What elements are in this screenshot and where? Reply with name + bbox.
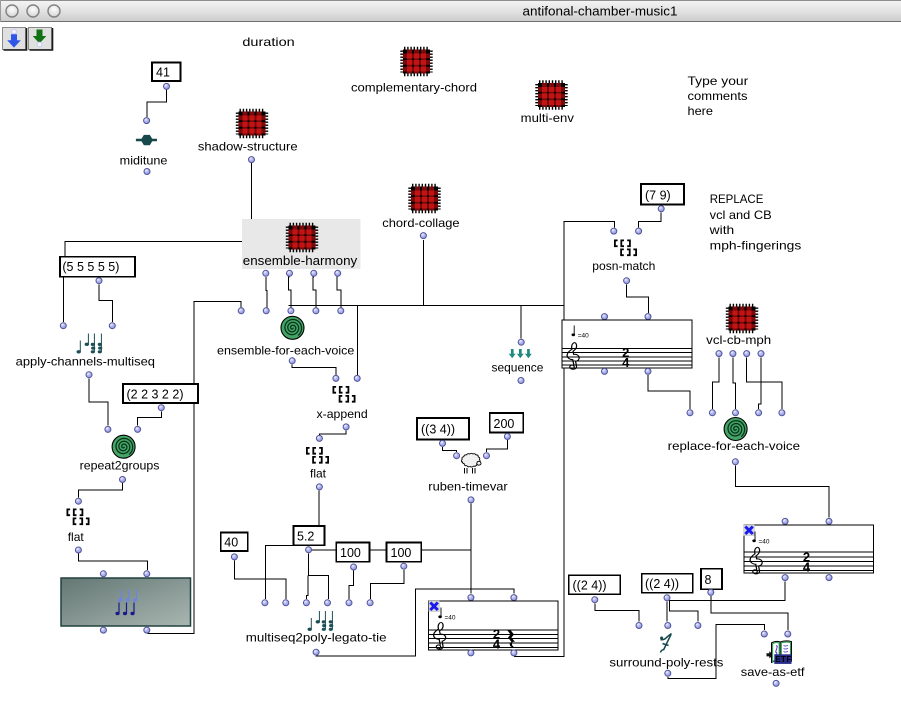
staff box 2 (replace score)	[744, 518, 874, 580]
wire 40 to multiseq2poly in2	[234, 561, 285, 600]
number box 40	[221, 533, 248, 560]
svg-text:mph-fingerings: mph-fingerings	[710, 238, 802, 252]
svg-text:duration: duration	[242, 35, 294, 49]
svg-text:((2 4)): ((2 4))	[573, 579, 607, 593]
module posn-match	[592, 228, 655, 284]
svg-text:(2 2 3 2 2): (2 2 3 2 2)	[127, 388, 184, 402]
wire vcl out3 to rfev in5	[747, 357, 782, 409]
comment type your comments here	[688, 74, 749, 118]
svg-text:200: 200	[494, 417, 515, 431]
wire (2 2 3 2 2) to repeat2groups in2	[138, 411, 162, 425]
wire ((2 4))B to surround in2	[666, 602, 668, 622]
wire staffbox3 out2 up to posn-match in1	[514, 368, 564, 656]
module sequence	[492, 339, 544, 383]
wire flat-left to multiseq in2	[78, 554, 147, 571]
svg-text:41: 41	[156, 66, 170, 80]
list box (5 5 5 5 5)	[60, 257, 135, 284]
wire staffbox1 out2 to replace-for-each-voice in1	[648, 375, 690, 409]
svg-text:apply-channels-multiseq: apply-channels-multiseq	[16, 354, 155, 368]
module x-append	[317, 375, 368, 430]
wire multiseq2poly out to staffbox3 in2	[316, 589, 514, 656]
wire ((2 4))A to surround in1	[595, 603, 639, 621]
wire ((3 4)) to ruben in1	[443, 447, 457, 452]
wire 100A to multiseq2poly in5	[349, 571, 353, 600]
wire horizontal 5.2-out to ruben vertical	[309, 549, 471, 551]
svg-text:save-as-etf: save-as-etf	[741, 665, 805, 679]
wire shadow-structure to ensemble-harmony	[251, 163, 253, 219]
svg-text:(7 9): (7 9)	[645, 189, 671, 203]
svg-text:flat: flat	[310, 467, 327, 481]
wire repeat2groups to flat-left	[78, 483, 122, 498]
svg-text:multi-env: multi-env	[521, 111, 574, 125]
svg-text:4: 4	[622, 355, 630, 370]
svg-text:REPLACE: REPLACE	[710, 192, 764, 206]
svg-text:ETF: ETF	[775, 655, 791, 664]
comment duration	[242, 35, 294, 49]
svg-text:replace-for-each-voice: replace-for-each-voice	[668, 439, 801, 453]
wire 100B to multiseq2poly in6	[370, 570, 404, 599]
wire flat-mid down through 5.2 box to multiseq2poly in1	[318, 491, 320, 526]
svg-text:complementary-chord: complementary-chord	[351, 80, 477, 94]
module shadow-structure	[198, 110, 298, 162]
wire posn-match to staffbox1 in2	[627, 284, 649, 313]
module ensemble-for-each-voice	[217, 308, 355, 364]
wire vcl out4 to rfev in4	[759, 357, 761, 409]
module vcl-cb-mph	[706, 305, 771, 356]
module multi-env	[521, 82, 574, 125]
svg-text:8: 8	[705, 573, 712, 587]
module miditune	[120, 118, 168, 175]
list box ((2 4)) A	[569, 575, 621, 603]
number box 8	[701, 569, 722, 596]
wire (7 9) to posn-match in2	[639, 212, 662, 227]
toolbar buttons	[3, 28, 53, 51]
svg-text:antifonal-chamber-music1: antifonal-chamber-music1	[523, 5, 678, 19]
wire chord-collage down and branches	[422, 240, 424, 306]
svg-text:shadow-structure: shadow-structure	[198, 140, 298, 154]
wire vcl out2 to rfev in3	[733, 357, 736, 409]
module flat left	[67, 498, 90, 553]
list box ((2 4)) B	[642, 574, 693, 601]
wire x-append out to flat-mid	[319, 431, 346, 435]
svg-text:100: 100	[391, 546, 412, 560]
svg-text:x-append: x-append	[317, 407, 368, 421]
svg-text:ruben-timevar: ruben-timevar	[428, 480, 507, 494]
module ensemble-harmony (selected)	[242, 219, 361, 276]
wire (5 5 5 5 5) out to apply-channels in2	[99, 284, 112, 322]
wire 8 to save-as-etf in2	[711, 596, 788, 630]
comment REPLACE block	[709, 192, 802, 252]
staff box 1 (posn-match score)	[562, 314, 692, 375]
module multiseq2poly-legato-tie	[246, 600, 387, 655]
module apply-channels-multiseq	[16, 323, 155, 378]
number box 5.2	[294, 526, 325, 553]
list box (7 9)	[641, 184, 684, 212]
wire ensemble-harmony out3 to efev in4	[313, 277, 316, 307]
svg-text:ensemble-for-each-voice: ensemble-for-each-voice	[217, 343, 355, 357]
svg-text:((3 4)): ((3 4))	[421, 423, 455, 437]
wire 5.2 out to multiseq2poly in3 and in4	[309, 554, 329, 600]
svg-text:4: 4	[803, 559, 811, 574]
svg-text:flat: flat	[68, 530, 85, 544]
number box 100 B	[387, 543, 422, 570]
svg-text:5.2: 5.2	[297, 530, 314, 544]
svg-text:((2 4)): ((2 4))	[645, 577, 679, 591]
wire efev out to x-append in1	[292, 364, 336, 374]
wire branch to x-append in2	[356, 306, 358, 375]
module surround-poly-rests	[609, 623, 723, 677]
wire branch to sequence	[520, 306, 522, 339]
wire ensemble-harmony out4 to efev in5	[337, 277, 341, 307]
staff box 3 (poly score)	[429, 595, 559, 656]
module complementary-chord	[351, 48, 477, 94]
module flat middle	[306, 435, 329, 490]
multiseq editor box	[61, 571, 191, 633]
svg-text:(5 5 5 5 5): (5 5 5 5 5)	[62, 260, 119, 274]
svg-text:repeat2groups: repeat2groups	[80, 459, 160, 473]
list box (2 2 3 2 2)	[123, 384, 198, 411]
list box ((3 4))	[417, 418, 469, 446]
svg-text:with: with	[709, 223, 735, 237]
svg-text:vcl and CB: vcl and CB	[710, 208, 772, 222]
svg-text:40: 40	[224, 536, 238, 550]
svg-text:ensemble-harmony: ensemble-harmony	[243, 254, 358, 268]
svg-text:here: here	[688, 104, 714, 118]
wire ensemble-harmony to (5 5 5 5 5)	[65, 242, 242, 257]
module ruben-timevar	[428, 453, 507, 503]
number box 200	[490, 413, 524, 440]
module save-as-etf	[741, 631, 805, 686]
wire 200 to ruben in2	[487, 440, 508, 452]
svg-text:posn-match: posn-match	[592, 259, 655, 273]
svg-text:4: 4	[493, 636, 501, 651]
wire staffbox2 out1 to surround in3	[669, 581, 785, 621]
wire ruben out down to staffbox3 in1	[470, 503, 472, 593]
wire apply-channels to repeat2groups in1	[89, 378, 108, 425]
module repeat2groups	[80, 426, 160, 482]
svg-text:Type your: Type your	[688, 74, 749, 88]
svg-text:surround-poly-rests: surround-poly-rests	[609, 655, 723, 669]
svg-text:comments: comments	[688, 89, 748, 103]
module chord-collage	[382, 185, 460, 238]
wire 41 to miditune	[147, 89, 166, 117]
svg-text:100: 100	[340, 546, 361, 560]
svg-text:vcl-cb-mph: vcl-cb-mph	[706, 333, 771, 347]
number box 41	[152, 63, 181, 90]
svg-text:miditune: miditune	[120, 154, 168, 168]
wire vcl out1 to rfev in2	[712, 357, 719, 409]
svg-text:multiseq2poly-legato-tie: multiseq2poly-legato-tie	[246, 630, 387, 644]
number box 100 A	[336, 543, 369, 571]
wire ensemble-harmony out1 to efev in2	[266, 277, 267, 307]
svg-text:chord-collage: chord-collage	[382, 216, 460, 230]
wire ensemble-harmony out2 to efev in3	[289, 277, 291, 307]
wire (5 5 5 5 5) to apply-channels in1	[62, 276, 64, 322]
svg-text:sequence: sequence	[492, 361, 544, 375]
title bar	[0, 0, 901, 22]
wire surround out to save-as-etf in1	[668, 624, 765, 678]
wire multiseq out2 up to ensemble-for-each-voice in1	[148, 301, 242, 633]
wire rfev out to staffbox2 in2	[735, 465, 829, 517]
module replace-for-each-voice	[668, 410, 801, 465]
